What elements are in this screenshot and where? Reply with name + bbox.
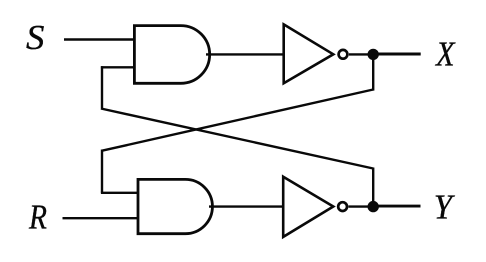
bubble of U2 — [338, 202, 347, 211]
and-gate G1 (top) — [134, 26, 209, 84]
wire feedback-Y vertical segment at left — [101, 66, 103, 108]
wire feedback-Y diagonal from left corner down to right — [101, 109, 373, 169]
inverter U1 (top) — [284, 24, 334, 83]
svg-text:S: S — [26, 18, 44, 57]
svg-text:R: R — [28, 197, 47, 236]
inverter U2 (bottom) — [283, 177, 333, 237]
wire feedback-X vertical down from node X — [372, 54, 374, 90]
wire G1 output to inverter U1 — [206, 53, 284, 55]
wire feedback-Y horizontal into gate G1 lower input — [101, 66, 135, 68]
wire Y output stub — [373, 205, 421, 208]
svg-text:Y: Y — [434, 188, 455, 226]
wire U2 bubble to node Y and output — [349, 205, 374, 207]
node Y junction dot — [368, 201, 379, 212]
wire feedback-X vertical at left down to G2 input level — [101, 150, 103, 193]
node X junction dot — [368, 49, 379, 60]
wire G2 output to inverter U2 — [209, 205, 284, 207]
wire R input — [63, 217, 140, 219]
wire feedback-X diagonal down-left — [102, 90, 373, 151]
bubble of U1 — [339, 50, 348, 59]
and-gate G2 (bottom) — [138, 179, 212, 233]
wire feedback-X horizontal into gate G2 upper input — [101, 192, 139, 194]
wire X output stub — [373, 53, 421, 56]
wire U1 bubble to node X and output — [349, 53, 373, 55]
wire feedback-Y vertical down to node Y — [372, 168, 374, 207]
wire S input — [64, 38, 135, 40]
svg-text:X: X — [434, 36, 456, 74]
